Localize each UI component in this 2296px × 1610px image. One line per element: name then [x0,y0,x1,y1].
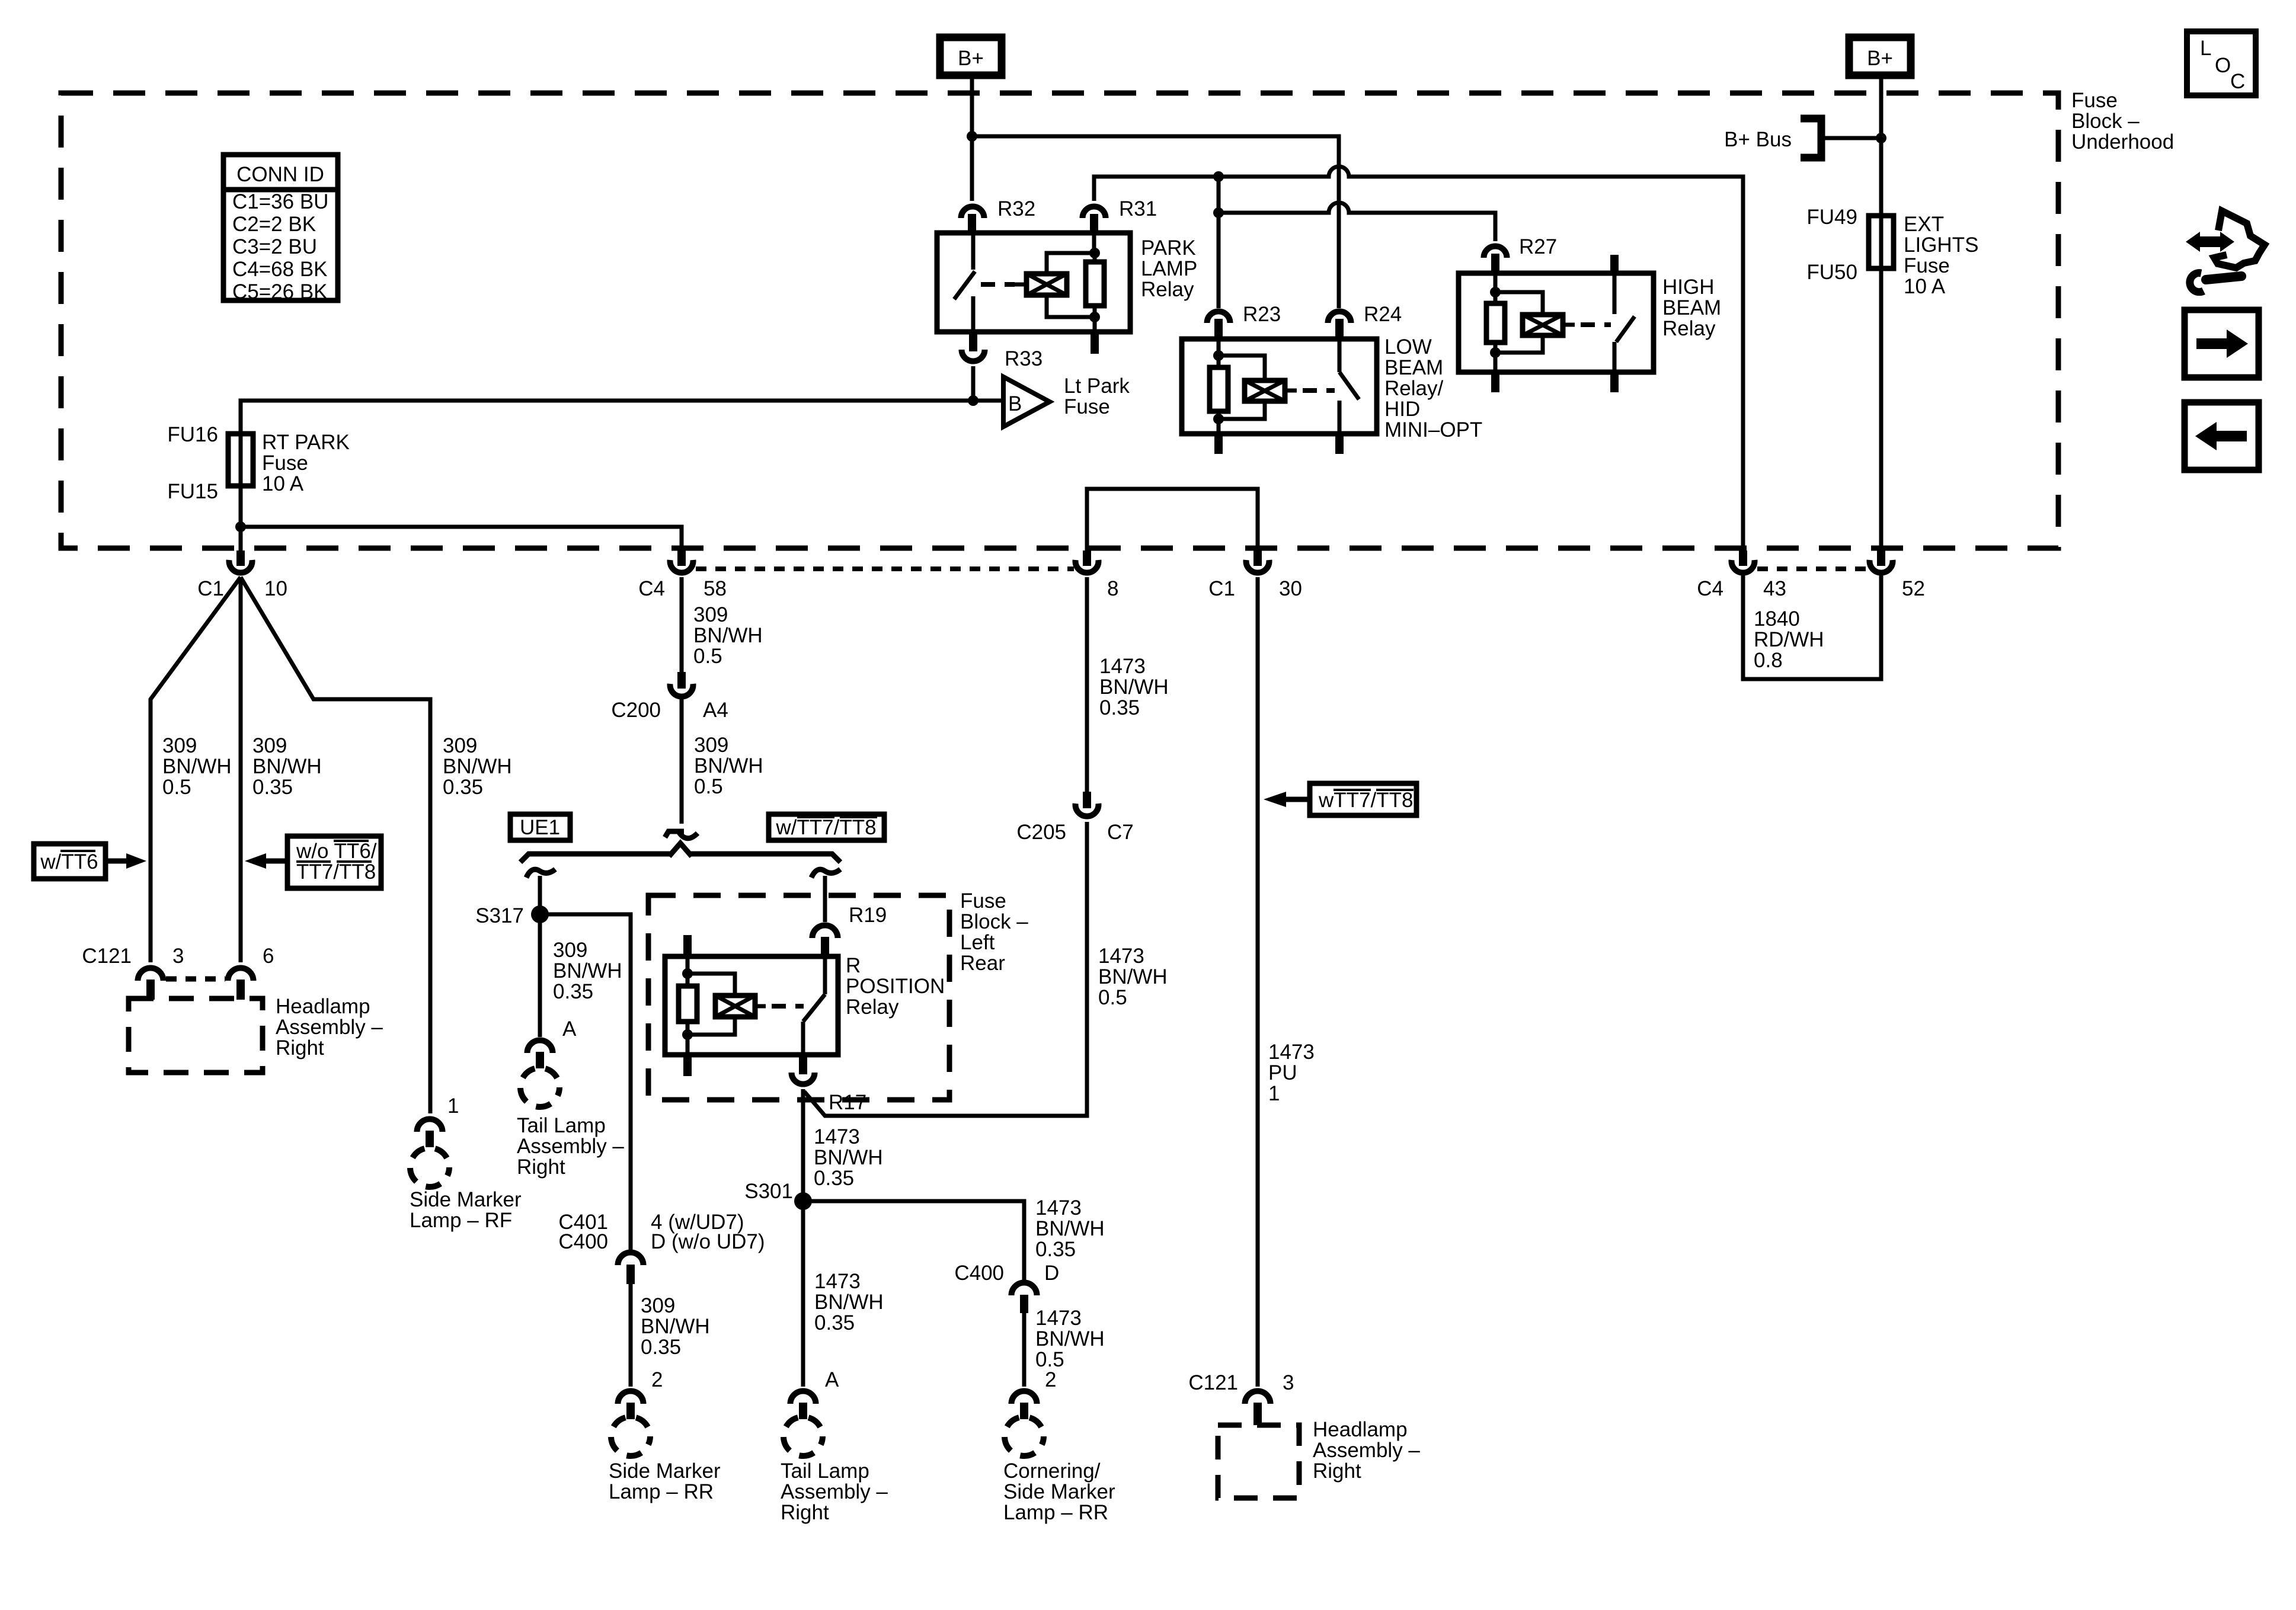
svg-text:6: 6 [263,945,274,968]
wire label 1473 BN/WH 0.35 pin 8 [1099,655,1169,719]
wire fuse to junction [239,486,243,550]
label Fuse Block - Underhood [2071,89,2174,153]
svg-text:Underhood: Underhood [2071,130,2174,153]
svg-text:Side Marker: Side Marker [1003,1480,1115,1503]
connector C205-C7 [1083,792,1091,808]
connector pin 8 [1083,550,1091,566]
fuse EXT LIGHTS FU49/FU50 [1869,216,1894,268]
wire R33 to junction [971,366,976,401]
svg-text:3: 3 [1283,1371,1294,1394]
node junction B+ feed [967,131,977,142]
svg-text:Headlamp: Headlamp [276,995,370,1018]
svg-text:D: D [1044,1262,1059,1285]
label Tail Lamp Assembly Right bottom [781,1459,888,1524]
wire B+ right down [1879,79,1884,216]
svg-text:Assembly –: Assembly – [781,1480,888,1503]
pin label R24 [1364,303,1402,326]
svg-text:R: R [846,954,861,977]
wire C1-30 down to headlamp [1256,577,1260,1387]
pin label 2 side marker RR [651,1368,663,1391]
labels C400 pin D [954,1262,1059,1285]
wire C400-D down [1022,1313,1027,1387]
svg-text:B+: B+ [958,47,984,70]
node junction R23 tap [1213,171,1224,182]
svg-text:A4: A4 [703,699,728,722]
mech link dashed R POSITION [772,1004,804,1009]
wire line C to R27 with hop [1219,203,1495,241]
svg-text:Relay: Relay [846,996,899,1019]
hook TT7 branch [811,869,840,878]
svg-text:R23: R23 [1243,303,1281,326]
svg-text:C4: C4 [1697,577,1723,600]
mech link dashed HIGH BEAM [1581,322,1611,327]
svg-text:309: 309 [694,734,728,757]
pin stub LOW BEAM right [1335,434,1344,454]
svg-text:R19: R19 [849,904,887,927]
svg-text:0.35: 0.35 [443,776,483,799]
resistor PARK LAMP [1086,262,1104,306]
connector tail lamp right A [791,1391,816,1404]
svg-text:C121: C121 [1188,1371,1238,1394]
svg-text:C7: C7 [1107,821,1134,844]
pin stub R POSITION coil top [683,935,692,956]
B+ Bus bracket [1801,119,1821,158]
switch PARK LAMP relay [971,233,976,270]
pin label 1 side marker RF [447,1094,459,1118]
dotted link C121 3 to 6 [166,977,225,982]
coil R POSITION [687,974,735,996]
dotted link C4-58 to 8 [696,566,1074,571]
label Tail Lamp Assembly Right [517,1114,624,1179]
icon arrow right box [2185,310,2259,377]
lamp Side Marker RR [611,1417,650,1456]
svg-text:TT7/TT8: TT7/TT8 [296,860,376,884]
connector R24 [1328,312,1351,324]
svg-text:Right: Right [517,1156,565,1179]
option tag w/TT7/TT8 [769,814,884,840]
svg-text:1473: 1473 [814,1270,861,1293]
resistor R POSITION [686,956,690,986]
wire label 309 BN/WH 0.35 RF branch [443,734,512,799]
svg-text:1840: 1840 [1754,607,1800,630]
pin label A tail lamp bottom [825,1368,839,1391]
label RT PARK Fuse 10 A [262,431,350,495]
option tag wTT7/TT8 [1310,783,1416,815]
pin label R23 [1243,303,1281,326]
svg-text:0.35: 0.35 [252,776,293,799]
svg-text:Lamp – RF: Lamp – RF [410,1209,512,1232]
lamp Tail Lamp Assembly Right bottom [784,1417,823,1456]
wire S317 to C401 [540,914,631,1253]
svg-text:Fuse: Fuse [1064,395,1110,418]
svg-text:Fuse: Fuse [262,452,308,475]
B+ terminal left [940,37,1002,75]
labels C200 pin A4 [611,699,728,722]
label pin 8 [1107,577,1118,600]
pin stub R33 [969,332,977,351]
svg-text:BN/WH: BN/WH [693,624,763,647]
icon vehicle diagnostic [2186,211,2265,292]
svg-text:Assembly –: Assembly – [517,1135,624,1158]
labels C205 pin C7 [1016,821,1133,844]
svg-text:LIGHTS: LIGHTS [1904,233,1978,257]
fuse block underhood dashed box [61,93,2058,548]
svg-text:0.35: 0.35 [814,1167,854,1190]
svg-text:BN/WH: BN/WH [694,754,763,777]
svg-text:BN/WH: BN/WH [1099,676,1169,699]
pin label R27 [1519,235,1557,258]
wire label 309 BN/WH 0.5 left branch [162,734,232,799]
lamp Side Marker RF [410,1148,449,1187]
svg-text:Side Marker: Side Marker [609,1459,721,1483]
pin label R17 [829,1091,866,1114]
pin labels FU49 FU50 [1806,206,1857,284]
wire jumper pin8 to pin30 [1087,489,1258,550]
label Side Marker Lamp RF [410,1188,522,1232]
svg-text:52: 52 [1902,577,1925,600]
svg-text:R17: R17 [829,1091,866,1114]
svg-text:BN/WH: BN/WH [443,755,512,778]
pin labels FU16 FU15 [167,423,218,503]
svg-text:wTT7/TT8: wTT7/TT8 [1318,789,1413,812]
svg-text:0.35: 0.35 [641,1336,681,1359]
connector C401-C400 [618,1253,644,1266]
wire label 309 BN/WH 0.5 below C200 [694,734,763,798]
svg-text:C5=26 BK: C5=26 BK [232,280,328,303]
dotted link 43 to 52 [1757,566,1868,571]
B+ terminal right [1849,37,1911,75]
wire R23 drop [1217,177,1221,308]
svg-text:Fuse: Fuse [2071,89,2118,112]
svg-text:FU49: FU49 [1806,206,1857,229]
node junction Lt Park feed [968,395,978,406]
svg-text:Relay: Relay [1662,317,1716,340]
pin label R32 [997,197,1035,220]
connector C121-3 left [138,968,164,981]
option tag UE1 [510,814,570,840]
fuse RT PARK FU16/FU15 [228,434,253,486]
svg-text:B+: B+ [1867,47,1893,70]
svg-text:58: 58 [703,577,727,600]
svg-text:O: O [2215,54,2231,77]
svg-text:w/TT6: w/TT6 [40,850,98,873]
label splice S317 [475,904,524,927]
node junction R27 tap [1213,207,1224,218]
wire label 1473 BN/WH 0.35 S301 branch [1035,1196,1105,1261]
svg-text:2: 2 [1045,1368,1056,1391]
node junction RT PARK out [235,521,246,532]
relay HIGH BEAM box [1459,273,1654,372]
icon arrow left box [2185,402,2259,470]
connector tail lamp A [527,1041,553,1054]
wire B+ down to junction [970,79,974,201]
wire TT7 branch down [823,876,827,922]
svg-text:1473: 1473 [1035,1307,1082,1330]
pin stub coil low side [1091,332,1099,354]
wire fuse to connector 52 [1879,268,1884,550]
svg-text:Rear: Rear [960,952,1005,975]
svg-text:Lamp – RR: Lamp – RR [1003,1501,1108,1524]
svg-text:Block –: Block – [2071,110,2140,133]
connector R27 [1484,247,1507,258]
wire C401 down [629,1284,633,1387]
svg-text:A: A [562,1017,577,1041]
wire 1840 RD/WH loop 43 to 52 [1743,573,1881,679]
resistor HIGH BEAM [1494,273,1498,303]
svg-text:HID: HID [1384,398,1420,421]
wire label 309 BN/WH 0.35 below C401 [641,1294,710,1359]
labels pin 4 w/UD7 and D w/o UD7 [651,1211,765,1253]
coil LOW BEAM [1219,356,1265,380]
wire C1-10 fan left [151,577,241,962]
lamp Cornering Side Marker RR [1005,1417,1044,1456]
svg-text:C4: C4 [638,577,665,600]
label Cornering Side Marker Lamp RR [1003,1459,1115,1524]
svg-text:C3=2 BU: C3=2 BU [232,235,317,258]
connector C121-3 right [1245,1391,1271,1404]
label Headlamp Assembly Right [276,995,383,1060]
svg-text:10 A: 10 A [262,472,304,495]
label splice S301 [744,1180,793,1203]
svg-text:S317: S317 [475,904,524,927]
svg-text:Lt Park: Lt Park [1064,375,1130,398]
svg-text:R33: R33 [1005,347,1043,370]
wire line B R31 to C4-43 with hop [1094,167,1743,550]
svg-text:309: 309 [553,939,587,962]
option tag w/o TT6 TT7/TT8 [287,836,381,888]
svg-text:LOW: LOW [1384,335,1432,359]
switch HIGH BEAM relay [1610,255,1619,273]
svg-text:C400: C400 [558,1230,608,1253]
label Lt Park Fuse [1064,375,1130,418]
svg-text:Block –: Block – [960,910,1028,933]
svg-text:309: 309 [162,734,197,757]
svg-text:2: 2 [651,1368,663,1391]
connector R32 [961,207,984,219]
svg-text:1473: 1473 [1035,1196,1082,1219]
label pin 52 [1902,577,1925,600]
pin stub LOW BEAM left [1214,434,1223,454]
fuse block left rear dashed box [648,895,949,1100]
wire label 309 BN/WH 0.35 S317 branch [553,939,622,1003]
svg-text:C121: C121 [82,945,132,968]
wire label 1840 RD/WH 0.8 [1754,607,1824,672]
svg-text:BN/WH: BN/WH [814,1146,883,1169]
svg-text:Assembly –: Assembly – [276,1016,383,1039]
svg-text:0.5: 0.5 [693,645,722,668]
svg-text:309: 309 [252,734,287,757]
wire label 309 BN/WH 0.35 mid branch [252,734,322,799]
component Headlamp Assembly Right dashed box [129,998,263,1073]
svg-text:10: 10 [264,577,287,600]
svg-text:C2=2 BK: C2=2 BK [232,213,316,236]
label Side Marker Lamp RR [609,1459,721,1503]
svg-text:0.35: 0.35 [553,980,593,1003]
svg-text:Right: Right [276,1036,324,1060]
svg-text:MINI–OPT: MINI–OPT [1384,418,1482,441]
svg-text:POSITION: POSITION [846,975,945,998]
connector C1-10 [236,550,245,566]
connector side marker RF [417,1119,443,1132]
svg-text:Relay: Relay [1141,278,1194,301]
svg-text:w/o TT6/: w/o TT6/ [296,840,377,863]
svg-text:HIGH: HIGH [1662,276,1715,299]
pin stub R POSITION coil bottom [683,1055,692,1076]
arrow w/o TT6 [265,859,287,864]
svg-text:Fuse: Fuse [960,889,1006,913]
wire to RT PARK fuse [241,401,1003,434]
svg-text:BEAM: BEAM [1662,296,1721,319]
svg-text:Lamp – RR: Lamp – RR [609,1480,714,1503]
svg-text:R27: R27 [1519,235,1557,258]
svg-text:0.8: 0.8 [1754,649,1783,672]
svg-text:LAMP: LAMP [1141,257,1197,280]
svg-text:309: 309 [641,1294,675,1317]
svg-text:D (w/o UD7): D (w/o UD7) [651,1230,765,1253]
svg-text:BN/WH: BN/WH [162,755,232,778]
svg-text:FU16: FU16 [167,423,218,446]
labels C121 pin 3 right [1188,1371,1294,1394]
option tag w/TT6 [34,844,105,879]
labels C401 C400 [558,1211,608,1253]
svg-text:1473: 1473 [1268,1041,1315,1064]
svg-text:Tail Lamp: Tail Lamp [781,1459,869,1483]
arrow wTT7/TT8 [1285,797,1310,802]
svg-text:C: C [2230,70,2245,93]
svg-text:L: L [2200,37,2211,60]
label R POSITION Relay [846,954,945,1019]
connector C400-D [1012,1283,1037,1296]
connector pin 52 [1877,550,1885,566]
arrow w/TT6 [105,859,127,864]
svg-text:Left: Left [960,931,995,954]
label PARK LAMP Relay [1141,236,1197,301]
label B [1008,392,1022,415]
node splice S317 [531,905,549,923]
coil HIGH BEAM [1495,292,1543,315]
svg-text:BN/WH: BN/WH [814,1291,884,1314]
svg-text:Right: Right [1313,1459,1361,1483]
labels C1 pin 10 [197,577,287,600]
svg-text:309: 309 [693,603,728,626]
svg-text:0.35: 0.35 [1099,696,1140,719]
wire label 1473 BN/WH 0.5 below C205 [1098,945,1168,1009]
off-page triangle B Lt Park Fuse [1003,377,1050,427]
wire UE1 branch down [538,876,542,1037]
label LOC letters [2200,37,2245,93]
wire junction to C4-58 [241,527,682,550]
svg-text:1: 1 [447,1094,459,1118]
svg-text:BN/WH: BN/WH [252,755,322,778]
node junction B+ bus [1876,133,1886,143]
svg-text:Side Marker: Side Marker [410,1188,522,1211]
mech link dashed LOW BEAM [1303,388,1335,393]
CONN ID table [223,155,338,300]
switch R POSITION relay [823,956,827,994]
wire label 1473 BN/WH 0.5 below C400 [1035,1307,1105,1371]
svg-text:BN/WH: BN/WH [1035,1327,1105,1350]
connector R31 [1083,207,1106,219]
wire label 309 BN/WH 0.5 [693,603,763,668]
hook UE1 branch [526,869,555,878]
svg-text:PARK: PARK [1141,236,1196,260]
wire R17 diagonal to C7 line [804,822,1087,1116]
svg-text:1473: 1473 [1098,945,1144,968]
pin label R33 [1005,347,1043,370]
svg-text:Right: Right [781,1501,829,1524]
node splice S301 [794,1192,812,1210]
svg-text:Cornering/: Cornering/ [1003,1459,1101,1483]
LOC legend box [2187,31,2256,95]
wire label 1473 PU 1 [1268,1041,1315,1105]
svg-text:R32: R32 [997,197,1035,220]
svg-text:R24: R24 [1364,303,1402,326]
svg-text:B+ Bus: B+ Bus [1724,128,1792,151]
svg-text:1: 1 [1268,1082,1280,1105]
pin label A tail lamp [562,1017,577,1041]
connector C4-43 [1739,550,1747,566]
relay PARK LAMP box [937,233,1130,332]
wire C1-10 fan right to RF [241,577,430,1113]
label HIGH BEAM Relay [1662,276,1721,340]
svg-text:C4=68 BK: C4=68 BK [232,258,328,281]
svg-text:0.5: 0.5 [694,775,723,798]
svg-text:1473: 1473 [814,1125,860,1148]
switch LOW BEAM relay [1338,339,1342,372]
svg-text:BN/WH: BN/WH [553,959,622,982]
svg-text:0.5: 0.5 [1098,986,1127,1009]
label B+ Bus [1724,128,1792,151]
svg-text:EXT: EXT [1904,213,1944,236]
connector C4-58 [677,550,686,566]
pin stub HIGH BEAM right [1610,372,1619,392]
svg-text:R31: R31 [1119,197,1157,220]
relay R POSITION box [665,956,838,1055]
svg-text:PU: PU [1268,1061,1297,1084]
svg-text:FU50: FU50 [1806,261,1857,284]
svg-text:C1: C1 [1208,577,1235,600]
wire A4 down to split [680,697,684,824]
connector R33 [962,350,985,361]
pin stub R17 [799,1055,807,1074]
svg-text:BN/WH: BN/WH [1098,965,1168,988]
resistor LOW BEAM [1217,339,1221,367]
svg-text:C1: C1 [197,577,224,600]
wire C1-10 middle [239,577,243,962]
svg-text:309: 309 [443,734,477,757]
label EXT LIGHTS Fuse 10 A [1904,213,1978,298]
svg-text:10 A: 10 A [1904,275,1946,298]
wire line A to R24 [972,136,1339,308]
label Headlamp Assembly Right bottom [1313,1418,1420,1483]
wire C4-58 down [680,577,684,674]
svg-text:0.5: 0.5 [162,776,191,799]
labels C4 pin 58 [638,577,727,600]
svg-text:Relay/: Relay/ [1384,377,1443,400]
svg-text:0.35: 0.35 [814,1311,855,1334]
label LOW BEAM Relay HID MINI-OPT [1384,335,1482,441]
svg-text:RT PARK: RT PARK [262,431,350,454]
svg-text:30: 30 [1279,577,1302,600]
svg-text:w/TT7/TT8: w/TT7/TT8 [775,816,876,839]
wire pin 8 down to C205 [1085,577,1089,793]
lamp Tail Lamp Assembly Right [520,1068,559,1107]
labels C1 pin 30 [1208,577,1302,600]
svg-text:8: 8 [1107,577,1118,600]
svg-text:S301: S301 [744,1180,793,1203]
svg-text:3: 3 [172,945,184,968]
pin label R19 [849,904,887,927]
